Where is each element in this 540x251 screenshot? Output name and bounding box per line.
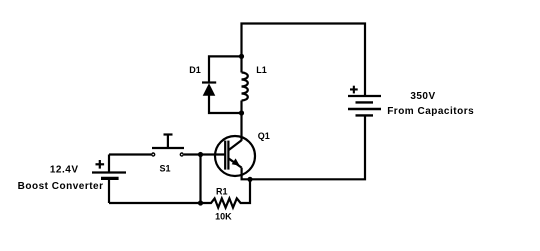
svg-text:From Capacitors: From Capacitors — [387, 106, 474, 117]
svg-text:350V: 350V — [410, 91, 435, 102]
svg-text:10K: 10K — [215, 212, 232, 222]
svg-text:D1: D1 — [189, 65, 201, 75]
svg-text:Boost Converter: Boost Converter — [18, 181, 104, 192]
svg-text:L1: L1 — [256, 65, 267, 75]
svg-text:12.4V: 12.4V — [50, 165, 79, 176]
svg-text:R1: R1 — [216, 186, 228, 196]
svg-text:Q1: Q1 — [258, 131, 270, 141]
svg-text:S1: S1 — [159, 163, 170, 173]
